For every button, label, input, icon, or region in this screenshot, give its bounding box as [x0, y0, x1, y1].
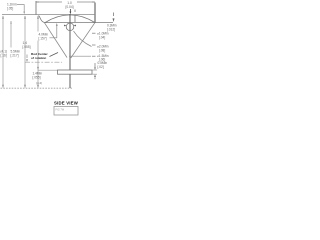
svg-text:[.055]: [.055]	[23, 45, 31, 49]
svg-text:[.16]: [.16]	[1, 54, 7, 58]
small gap dimension near dome	[74, 16, 76, 23]
svg-text:[.055]: [.055]	[33, 75, 41, 79]
svg-text:SIDE VIEW: SIDE VIEW	[54, 101, 79, 106]
shoulder line	[44, 22, 113, 24]
svg-text:(4.2): (4.2)	[36, 81, 42, 85]
svg-text:[.05]: [.05]	[7, 7, 13, 11]
y70 extension line to bar	[38, 69, 58, 71]
bar thickness dimension	[93, 69, 98, 71]
svg-text:[0.04]: [0.04]	[66, 5, 74, 9]
svg-text:[.08]: [.08]	[99, 48, 105, 52]
right text stack	[92, 32, 96, 34]
main horizontal reference line	[2, 14, 95, 16]
title box	[54, 107, 78, 116]
pcb bar	[58, 70, 93, 74]
small arrow + line at y62	[26, 55, 28, 59]
dome arc	[45, 15, 95, 23]
svg-text:[.04]: [.04]	[99, 36, 105, 40]
top dimension line	[36, 1, 62, 3]
left profile curve	[39, 16, 45, 23]
svg-text:[.157]: [.157]	[39, 37, 47, 41]
svg-text:[.217]: [.217]	[11, 54, 19, 58]
top-right small dimension	[113, 13, 115, 17]
svg-text:[.02]: [.02]	[98, 65, 104, 69]
svg-text:FIG 7W: FIG 7W	[56, 108, 65, 111]
svg-text:[.012]: [.012]	[107, 28, 115, 32]
V lines	[45, 23, 68, 58]
svg-text:of rotation: of rotation	[31, 56, 46, 60]
dashed base line	[1, 87, 73, 89]
centerline	[69, 14, 71, 88]
left extension verticals with arrows	[2, 16, 4, 88]
top extension verticals	[35, 1, 37, 15]
rotation circle	[66, 23, 74, 31]
leaders to right stack	[74, 31, 92, 47]
